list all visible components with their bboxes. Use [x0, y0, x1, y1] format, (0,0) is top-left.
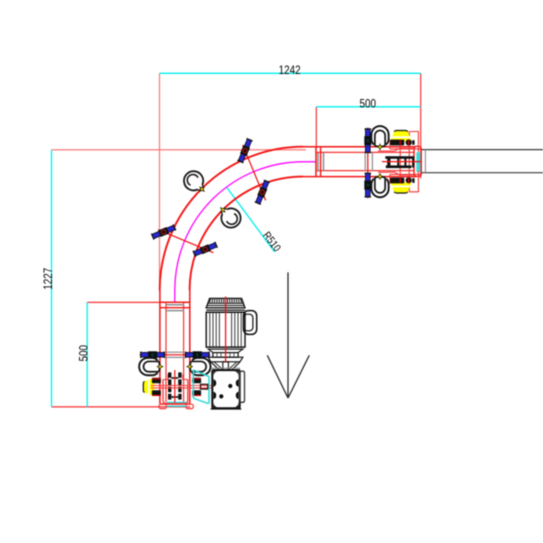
drive ladder rungs (horizontal end) [389, 157, 413, 168]
curve roller set 1 inner roller [255, 180, 271, 204]
end roller axis red line (horizontal end) [367, 128, 369, 199]
clamp bar left-lower (vertical end, black) [152, 390, 161, 396]
flow direction arrow shaft [287, 272, 289, 398]
flow direction arrow left barb [267, 355, 288, 398]
dimension line 1227 (cyan vertical) [51, 150, 53, 407]
conveyor continuation bottom line (black) [422, 172, 543, 174]
take-up hook A attach star (yellow) [198, 185, 206, 193]
clamp circle bottom (black) [406, 177, 412, 183]
gearbox cyan projection outline [193, 370, 209, 404]
gearbox gray top band [212, 368, 239, 370]
clamp bar right-upper (vertical end, black) [192, 378, 201, 384]
horizontal module joint gray bar 1 [317, 153, 319, 171]
clamp bar top-left (black) [390, 140, 404, 146]
clamp bar bottom-left (black) [390, 178, 404, 184]
motor shaft [223, 362, 229, 371]
motor handle loop (right) [244, 311, 257, 335]
gearbox feet [211, 408, 242, 410]
take-up hook B attach star (yellow) [219, 206, 227, 214]
belt edge flare bottom [378, 172, 414, 175]
gearbox coupling box (black) [201, 384, 208, 389]
motor fan cover band lines [208, 302, 243, 304]
cyan underline between feet [167, 405, 187, 407]
gearbox corner bosses [214, 371, 239, 407]
clamp circle top (black) [406, 139, 412, 145]
horizontal frame bottom outer edge [303, 176, 416, 178]
take-up bracket top right notch [183, 374, 188, 379]
take-up ladder mid black bars [171, 377, 178, 379]
belt centerline straight vertical (magenta) [174, 290, 176, 302]
vertical frame left inner edge [165, 303, 167, 402]
motor bottom bands [206, 346, 245, 348]
end guide roller top (horizontal end) [364, 129, 371, 153]
dimension 1242 extension line right (red vertical x=420.7) [420, 73, 422, 178]
radius leader line R510 (cyan diagonal) [227, 188, 275, 252]
take-up hook A ring (outer arc, 45 deg) [184, 171, 203, 190]
motor top flange rings [206, 307, 245, 309]
shackle bottom (horizontal end) [371, 174, 388, 198]
clamp red dashes bottom [399, 178, 401, 183]
vertical frame bottom end plate [160, 403, 190, 405]
end roller gray side bars (horizontal end) [364, 153, 366, 171]
dimension line 1242 (cyan horizontal) [160, 72, 421, 74]
motor body fins [210, 312, 241, 347]
dimension line 500 top (cyan horizontal) [316, 106, 420, 108]
curve roller set 1 radial axis line (red) [243, 145, 266, 200]
motor mounting flange [208, 357, 243, 362]
take-up ladder left column (vertical end) [168, 372, 171, 399]
clamp red dashes (vertical end) [152, 378, 161, 380]
curve roller set 1 outer roller [237, 138, 253, 162]
svg-text:1242: 1242 [279, 63, 301, 77]
shackle left (vertical end) [139, 358, 163, 375]
horizontal frame top outer edge [303, 146, 416, 148]
dimension 500 left extension line (red horizontal y=302.4) [87, 301, 189, 303]
end guide roller left (vertical end) [141, 351, 165, 358]
horizontal frame end cap (rounded, red) [414, 146, 421, 176]
dimension 1242 extension line left (red vertical x=159.5) [159, 73, 161, 292]
flow direction arrow right barb [288, 355, 309, 398]
take-up bracket (red rounded U) [163, 380, 188, 404]
clamp bar left-upper (vertical end, black) [152, 378, 161, 384]
motor red centerline [225, 297, 227, 363]
drive ladder bottom bar (horizontal end) [386, 165, 412, 168]
motor bell housing with V lines [211, 362, 240, 370]
horizontal module joint plate 2 [320, 147, 322, 177]
clamp tail top (black) [412, 140, 414, 145]
dimension 1227/500 extension line bottom (red horizontal y=406.9) [52, 406, 191, 408]
clamp bolt centerline red vertical 2 [408, 132, 410, 192]
drive ladder top bar (horizontal end) [385, 156, 414, 159]
drive clamp outline bottom (red) [390, 171, 421, 192]
take-up hook B ring (inner arc, 45 deg) [221, 208, 240, 227]
horizontal frame bottom inner edge [317, 170, 415, 172]
vertical frame right outer edge [189, 290, 191, 404]
motor fan grille hatch [210, 299, 242, 303]
curve roller set 2 outer roller [151, 224, 175, 240]
dimension 1227 extension line top (red horizontal y=149.8) [52, 149, 307, 151]
shackle top (horizontal end) [371, 126, 388, 150]
clamp tail bottom (black) [412, 178, 414, 183]
dimension 500 top extension line (red vertical x=316.3 upper part) [315, 107, 317, 147]
vertical frame bottom foot left [159, 404, 167, 408]
svg-text:500: 500 [76, 345, 90, 362]
yellow wedge bottom (horizontal end) [390, 182, 411, 193]
vertical module joint gray bar 1 [166, 304, 184, 306]
vertical end roller axis red line [140, 354, 211, 356]
vertical module joint plate 2 [160, 307, 190, 309]
curve roller set 2 radial axis line (red) [158, 230, 213, 253]
motor body [206, 312, 245, 347]
take-up centerline red (vertical end) [174, 370, 176, 403]
curve roller set 2 inner roller [193, 242, 217, 258]
yellow wedge top (horizontal end) [390, 131, 411, 142]
vertical frame left outer edge [159, 290, 161, 404]
dimension line 500 left (cyan vertical) [86, 302, 88, 407]
shackle right (vertical end) [187, 358, 211, 375]
drive clamp outline top (red) [390, 132, 421, 153]
gear motor red coupling lines [151, 385, 212, 387]
end guide roller right (vertical end) [186, 351, 210, 358]
drive centerline red (horizontal end) [382, 161, 421, 163]
conveyor curve outer belt edge arc R143.1 [160, 147, 303, 290]
clamp bolt centerline red vertical 1 [399, 140, 401, 185]
gearbox body [212, 370, 239, 408]
svg-text:1227: 1227 [41, 268, 55, 290]
horizontal module joint gray bar 2 [323, 153, 325, 171]
conveyor continuation top line (black) [422, 149, 543, 151]
end guide roller bottom (horizontal end) [364, 173, 371, 197]
belt centerline arc (magenta) R128.2 [175, 162, 303, 290]
gearbox bolt holes [228, 384, 232, 388]
motor neck [213, 353, 238, 358]
vertical frame right inner edge [183, 303, 185, 402]
vertical module joint plate 1 [160, 301, 190, 303]
horizontal frame top inner edge [317, 151, 415, 153]
conveyor curve inner belt edge arc R113.4 [190, 177, 303, 290]
clamp red dashes top [399, 140, 401, 145]
clamp bar right-lower (vertical end, black) [192, 390, 201, 396]
take-up bracket top left notch [163, 374, 168, 379]
motor fan cover (trapezoid) [206, 298, 245, 308]
yellow wedge left (vertical end) [143, 378, 154, 397]
belt edge flare top [378, 148, 414, 151]
conveyor continuation left edge (gray vertical) [424, 150, 426, 173]
end roller gray side bars (vertical end) [166, 351, 184, 353]
end pulley teal bar [416, 152, 421, 172]
vertical module joint gray bar 2 [166, 310, 184, 312]
vertical frame bottom foot right [186, 404, 194, 408]
horizontal module joint plate 1 [315, 147, 317, 177]
take-up ladder right column (vertical end) [178, 372, 181, 399]
cyan line inside bracket bottom [167, 401, 187, 403]
gearbox side plate [240, 371, 245, 402]
svg-text:500: 500 [360, 97, 377, 111]
belt centerline straight horizontal (magenta) [303, 161, 316, 163]
